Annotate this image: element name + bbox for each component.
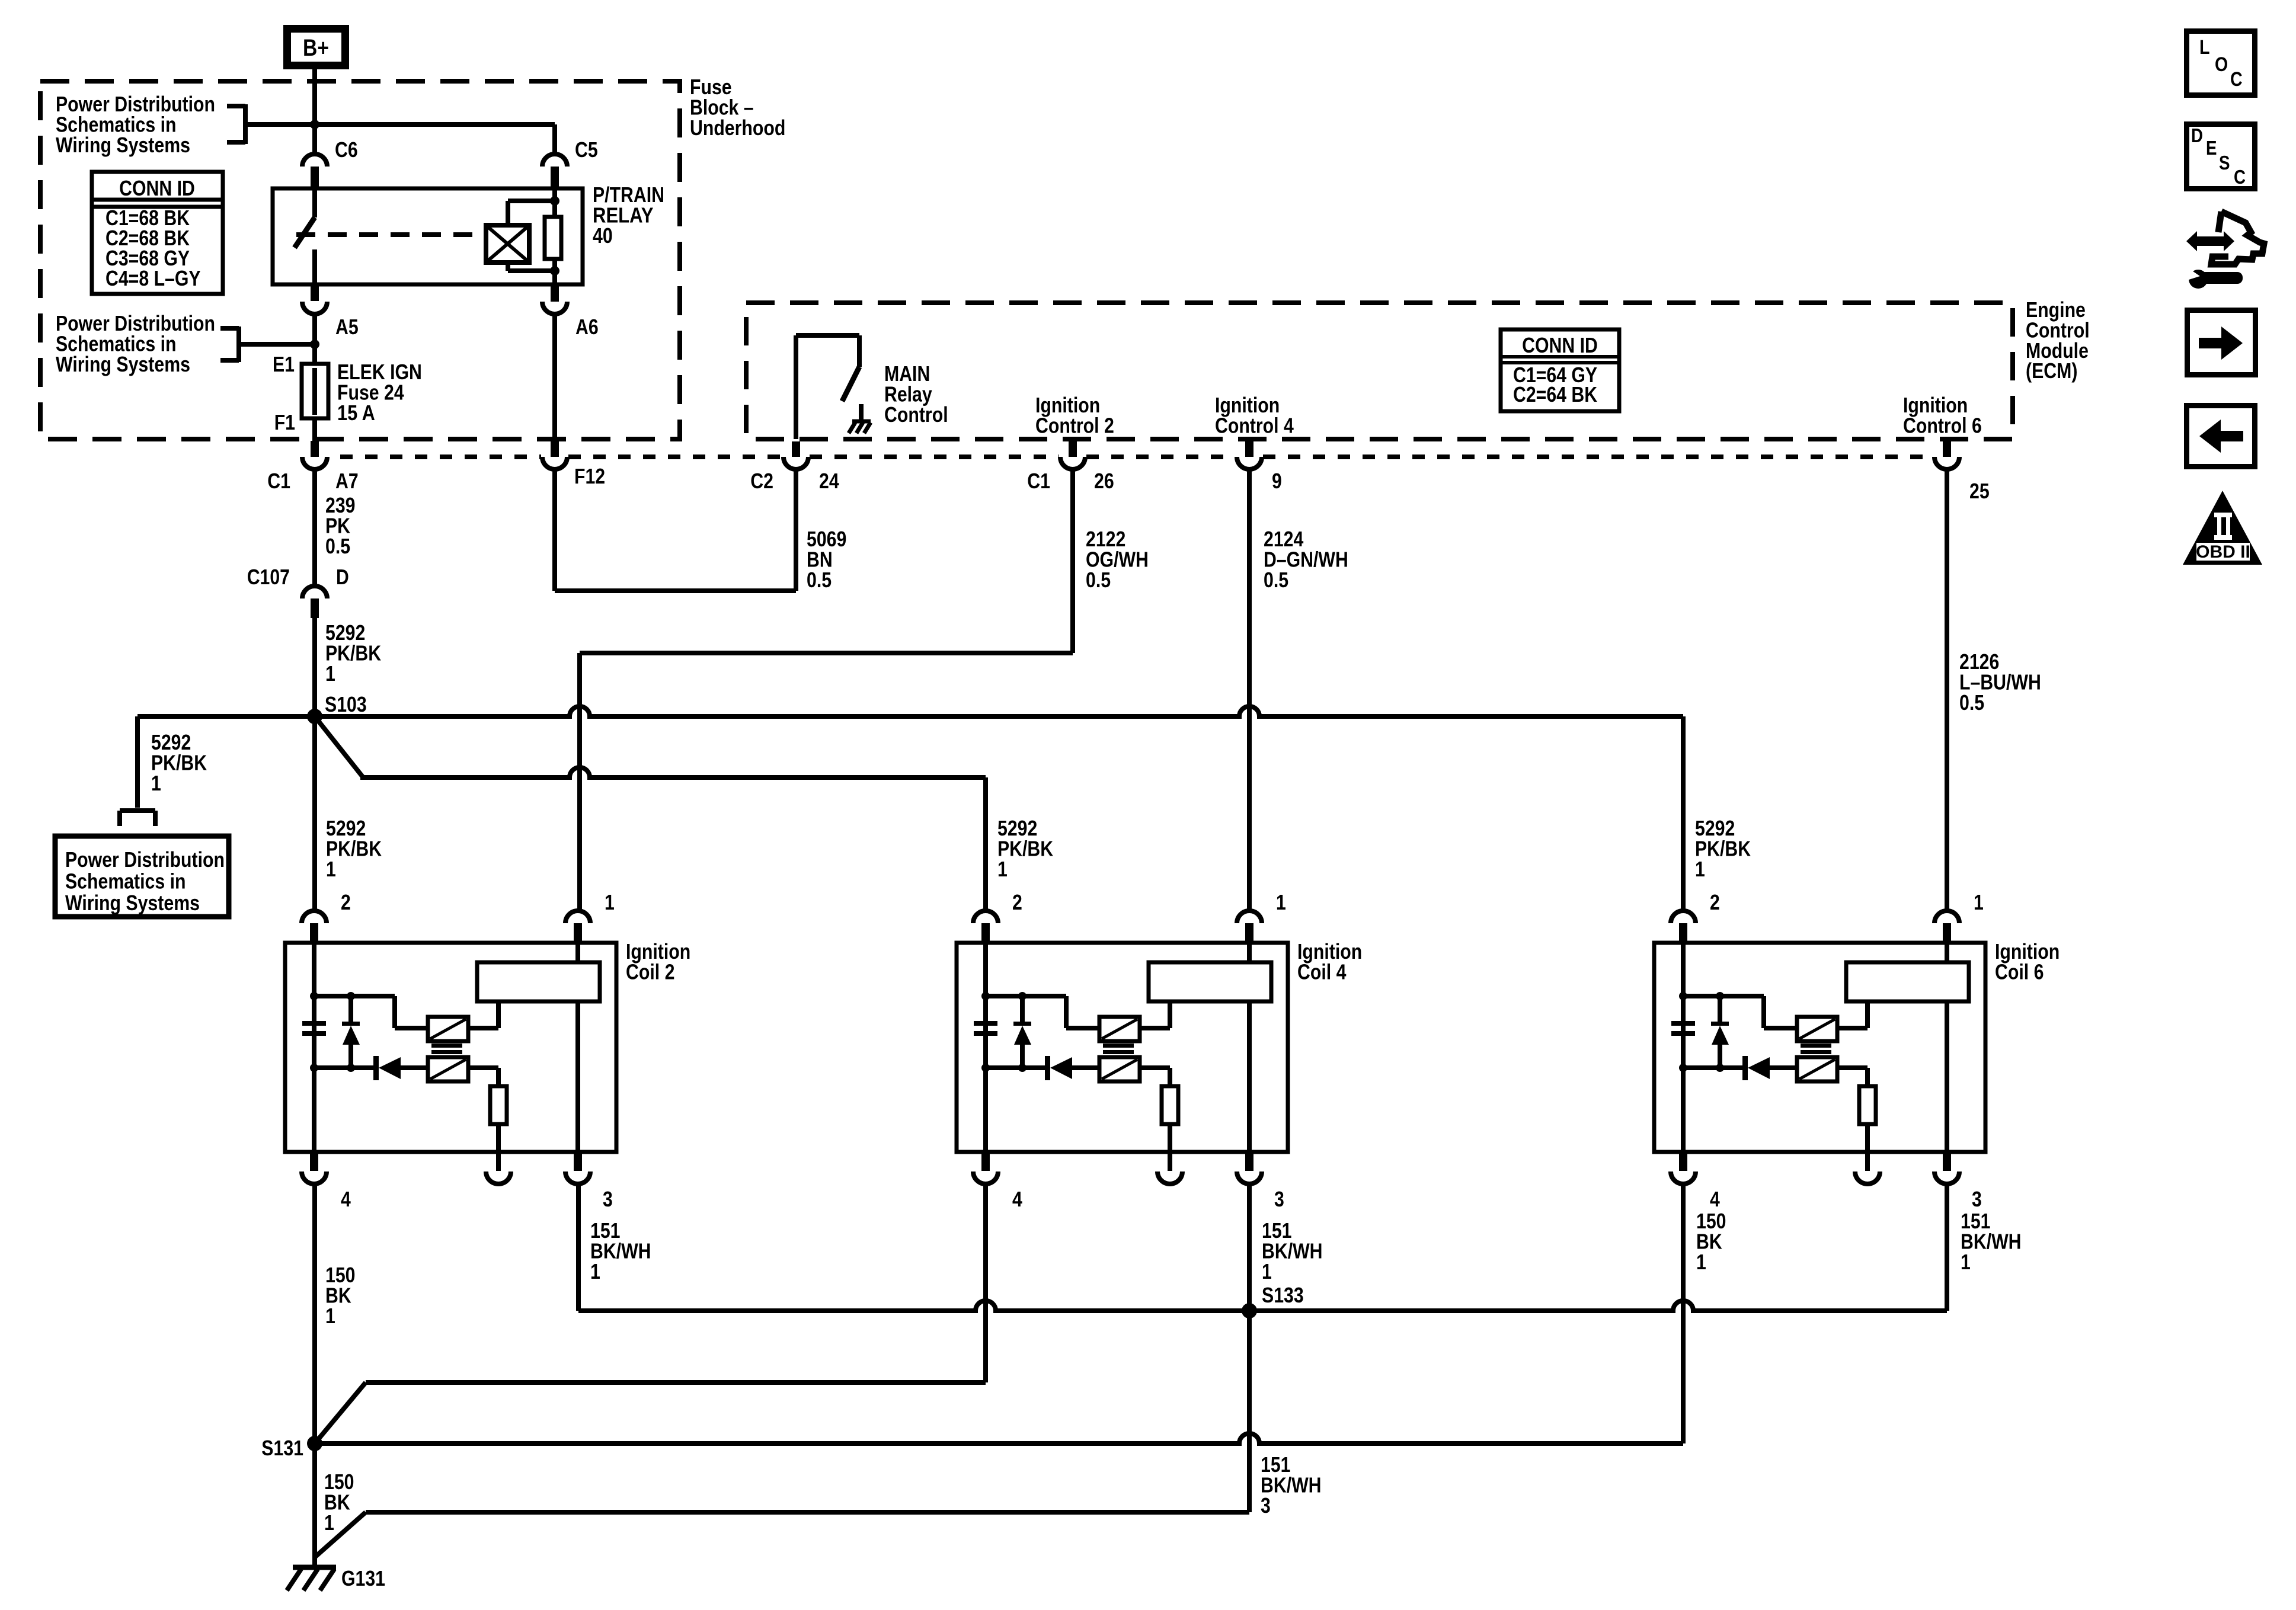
svg-text:Control 2: Control 2 (1035, 413, 1114, 437)
relay switch contact (312, 188, 317, 217)
svg-text:40: 40 (593, 223, 613, 248)
boxed label Power Distribution ref 3 (55, 836, 229, 917)
svg-text:Coil 4: Coil 4 (1297, 959, 1346, 984)
svg-text:1: 1 (1262, 1259, 1272, 1283)
S103 diagonal branch (315, 716, 363, 777)
svg-text:C1: C1 (267, 469, 290, 493)
svg-text:1: 1 (1974, 890, 1984, 914)
wire junction to C5 drop (315, 122, 555, 127)
svg-text:0.5: 0.5 (1086, 568, 1111, 592)
icon vehicle outline (2211, 212, 2264, 264)
svg-text:0.5: 0.5 (1264, 568, 1288, 592)
svg-text:(ECM): (ECM) (2026, 359, 2077, 383)
svg-text:Wiring Systems: Wiring Systems (65, 891, 200, 915)
wire coil2 pin3 drop (576, 1184, 581, 1311)
connector C1 A7 (311, 441, 319, 457)
svg-text:1: 1 (1696, 1250, 1706, 1274)
svg-text:4: 4 (1012, 1187, 1022, 1211)
wire 2126 L-BU/WH (1945, 469, 1949, 910)
ignition coil 2 assembly (285, 943, 616, 1152)
svg-text:D: D (2191, 124, 2203, 146)
svg-text:S: S (2219, 152, 2230, 174)
svg-text:C107: C107 (247, 565, 290, 589)
wire coil2 pin4 to S131 (312, 1184, 317, 1443)
wire S133 drop (1247, 1311, 1252, 1512)
svg-text:3: 3 (1972, 1187, 1982, 1211)
bus 151 to ground (366, 1510, 1249, 1515)
svg-text:1: 1 (326, 857, 336, 881)
wire bracket1 to junction (247, 122, 315, 127)
connector C1 pin 26 (1069, 441, 1077, 457)
bus 151 BK/WH (578, 1301, 1947, 1311)
svg-text:2: 2 (1710, 890, 1720, 914)
wire S131 to ground (312, 1443, 317, 1567)
svg-text:1: 1 (325, 1304, 335, 1328)
connector pin 9 (1245, 441, 1253, 457)
icon DESC box (2187, 124, 2255, 189)
wire drop to off-page bracket (135, 716, 140, 808)
svg-text:C4=8 L–GY: C4=8 L–GY (105, 266, 201, 290)
ECM main relay control switch (794, 335, 798, 439)
relay K1 P/TRAIN box (273, 188, 583, 284)
wire 239 PK (312, 469, 317, 585)
wire F12 to ECM pin 24 (552, 469, 557, 591)
svg-text:1: 1 (1276, 890, 1286, 914)
svg-text:1: 1 (325, 661, 335, 686)
wire A5 to fuse (312, 314, 317, 344)
svg-text:1: 1 (997, 857, 1008, 881)
svg-text:S131: S131 (261, 1436, 303, 1460)
power symbol B+ box (287, 29, 346, 66)
wire coil6 pin3 drop (1945, 1184, 1949, 1311)
svg-text:Coil 6: Coil 6 (1995, 959, 2044, 984)
svg-text:CONN ID: CONN ID (1522, 333, 1598, 357)
svg-text:25: 25 (1969, 479, 1990, 503)
bus 5292 middle to coil4 pin2 (360, 767, 986, 777)
svg-text:A7: A7 (335, 469, 359, 493)
svg-text:Wiring Systems: Wiring Systems (56, 352, 190, 376)
svg-text:C: C (2230, 68, 2243, 91)
svg-text:Coil 2: Coil 2 (626, 959, 674, 984)
svg-text:Underhood: Underhood (690, 116, 785, 140)
svg-text:9: 9 (1272, 469, 1282, 493)
svg-text:26: 26 (1094, 469, 1114, 493)
svg-text:C6: C6 (335, 137, 358, 162)
svg-text:E1: E1 (273, 352, 295, 376)
svg-text:1: 1 (324, 1510, 334, 1535)
connector C5 (542, 154, 567, 167)
splice S103 (307, 709, 322, 724)
svg-text:C: C (2234, 166, 2246, 188)
relay coil symbol (486, 225, 529, 263)
svg-text:OBD II: OBD II (2196, 542, 2250, 562)
connector C2 pin 24 (792, 441, 800, 457)
svg-text:A6: A6 (575, 315, 599, 339)
icon wrench (2189, 270, 2208, 289)
svg-text:S103: S103 (325, 692, 367, 716)
icon LOC box (2187, 31, 2255, 95)
wire B+ down to C6 (312, 69, 317, 153)
wire A6 down to F12 (552, 314, 557, 441)
splice S131 (307, 1436, 322, 1451)
svg-text:CONN ID: CONN ID (119, 176, 195, 200)
icon OBD II triangle (2183, 491, 2262, 565)
connector A6 (551, 284, 559, 302)
wire 2124 D-GN/WH (1247, 469, 1252, 910)
svg-text:24: 24 (819, 469, 839, 493)
svg-text:G131: G131 (341, 1566, 385, 1590)
inline harness connector dotted line (340, 454, 541, 459)
svg-text:O: O (2215, 53, 2228, 76)
svg-text:C2=64 BK: C2=64 BK (1513, 382, 1597, 406)
svg-text:Control 6: Control 6 (1903, 413, 1982, 437)
svg-text:Wiring Systems: Wiring Systems (56, 133, 190, 157)
svg-text:1: 1 (605, 890, 615, 914)
table CONN ID fuse block (92, 172, 223, 294)
svg-text:E: E (2206, 137, 2217, 159)
svg-text:F12: F12 (574, 464, 605, 488)
relay internal wiring (552, 188, 557, 217)
svg-text:15 A: 15 A (337, 401, 375, 425)
svg-text:Control 4: Control 4 (1215, 413, 1294, 437)
node relay coil top (550, 196, 559, 206)
node relay coil bottom (550, 266, 559, 276)
fuse F24 ELEK IGN body (312, 344, 317, 364)
svg-text:C2: C2 (750, 469, 773, 493)
ECM internal ground (859, 404, 864, 421)
ignition coil 6 assembly (1654, 911, 1985, 1184)
svg-text:4: 4 (1710, 1187, 1720, 1211)
icon arrow left box (2187, 406, 2255, 467)
svg-text:A5: A5 (335, 315, 359, 339)
icon arrow right box (2188, 311, 2256, 375)
svg-text:0.5: 0.5 (325, 534, 350, 558)
wire 2122 OG/WH (1070, 469, 1075, 653)
bracket to Power Distribution ref 1 (227, 104, 245, 108)
svg-text:1: 1 (151, 771, 161, 795)
ground G131 (293, 1565, 336, 1570)
ECM dashed box (746, 303, 2013, 439)
icon vehicle data arrow (2186, 231, 2234, 251)
splice S133 (1242, 1303, 1257, 1318)
connector A5 (311, 284, 319, 301)
svg-text:C5: C5 (575, 137, 598, 162)
bracket to Power Distribution ref 2 (220, 326, 239, 331)
fuse block underhood dashed box (40, 81, 680, 439)
svg-text:3: 3 (1274, 1187, 1284, 1211)
svg-text:2: 2 (341, 890, 351, 914)
svg-text:L: L (2199, 36, 2210, 59)
connector C107 D (302, 586, 327, 598)
table CONN ID ECM (1501, 329, 1619, 411)
svg-text:1: 1 (590, 1259, 600, 1283)
svg-text:C1: C1 (1027, 469, 1050, 493)
svg-text:B+: B+ (303, 35, 329, 61)
node E1 junction (310, 340, 319, 349)
connector C6 (302, 154, 327, 167)
svg-text:2: 2 (1012, 890, 1022, 914)
wire coil4 pin4 drop (983, 1184, 988, 1382)
svg-text:Schematics in: Schematics in (65, 869, 186, 893)
svg-text:D: D (336, 565, 349, 589)
off-page bracket symbol (120, 808, 155, 813)
bus 150 BK coil4 to S131 (366, 1380, 986, 1385)
connector F12 (551, 441, 559, 457)
relay actuator dashed link (296, 232, 486, 237)
bus 5292 upper to coil6 pin2 (137, 706, 1683, 716)
svg-text:1: 1 (1961, 1250, 1971, 1274)
ignition coil 4 assembly (957, 911, 1288, 1184)
svg-text:3: 3 (1261, 1493, 1271, 1518)
svg-text:S133: S133 (1262, 1283, 1304, 1307)
svg-text:3: 3 (603, 1187, 613, 1211)
svg-text:Power Distribution: Power Distribution (65, 847, 225, 872)
svg-text:0.5: 0.5 (1959, 690, 1984, 715)
svg-text:1: 1 (1695, 857, 1705, 881)
svg-text:0.5: 0.5 (807, 568, 832, 592)
wire coil6 pin4 drop (1681, 1184, 1686, 1443)
wire 5292 PK/BK trunk (312, 618, 317, 910)
connector pin 25 (1943, 441, 1951, 457)
relay coil suppression resistor (545, 217, 561, 259)
bus 150 BK S131 to coil6 (315, 1433, 1683, 1443)
node junction at B+ feed split (310, 120, 319, 129)
wire coil4 pin3 to S133 (1247, 1184, 1252, 1311)
svg-text:Control: Control (884, 402, 948, 427)
wire bracket2 to E1 (241, 342, 315, 347)
svg-text:4: 4 (341, 1187, 351, 1211)
svg-text:F1: F1 (274, 410, 295, 434)
